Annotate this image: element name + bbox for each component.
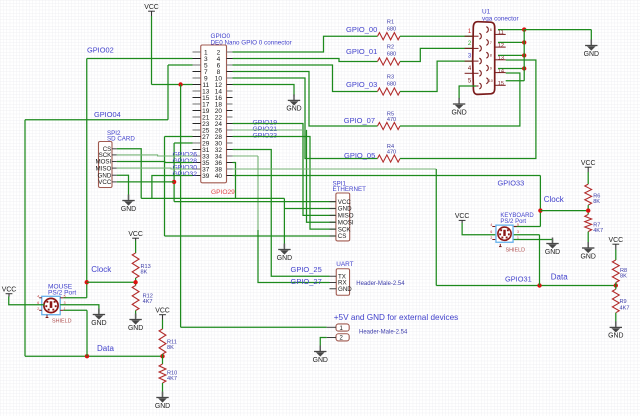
svg-text:ETHERNET: ETHERNET [333,186,367,193]
svg-text:GPIO04: GPIO04 [94,110,121,119]
svg-text:GND: GND [313,357,328,364]
svg-text:5: 5 [517,223,519,227]
svg-text:6: 6 [490,230,492,234]
svg-text:R1: R1 [387,19,394,25]
svg-text:VCC: VCC [455,213,470,220]
svg-text:GPIO_07: GPIO_07 [344,116,375,125]
svg-text:GND: GND [545,249,560,256]
svg-text:SHIELD: SHIELD [506,247,526,253]
svg-text:40: 40 [215,173,223,180]
svg-text:GND: GND [121,206,136,213]
svg-text:4: 4 [37,294,39,298]
svg-text:8K: 8K [141,270,148,276]
svg-text:680: 680 [387,52,396,58]
svg-text:GND: GND [286,106,301,113]
svg-text:UART: UART [336,261,353,268]
svg-text:SHIELD: SHIELD [52,318,72,324]
svg-text:GND: GND [91,320,106,327]
svg-text:9: 9 [490,66,492,70]
svg-text:4K7: 4K7 [593,228,603,234]
svg-text:GND: GND [338,286,352,293]
svg-text:VCC: VCC [609,237,624,244]
svg-text:DE0 Nano GPIO 0 connector: DE0 Nano GPIO 0 connector [211,39,292,46]
svg-text:4K7: 4K7 [167,376,177,382]
svg-text:MISO: MISO [95,165,111,172]
svg-text:GPIO33: GPIO33 [498,178,525,187]
svg-text:GND: GND [584,51,599,58]
svg-text:R3: R3 [387,75,394,81]
svg-text:GPIO29: GPIO29 [211,189,235,196]
svg-text:3: 3 [517,230,519,234]
svg-text:8K: 8K [167,345,174,351]
svg-text:Clock: Clock [91,265,112,274]
svg-text:GND: GND [155,403,170,410]
svg-text:VCC: VCC [98,179,112,186]
svg-text:8K: 8K [593,199,600,205]
svg-text:GPIO_25: GPIO_25 [291,265,322,274]
svg-text:VCC: VCC [2,287,17,294]
svg-text:12: 12 [498,43,504,49]
svg-text:GND: GND [277,255,292,262]
svg-text:2: 2 [37,307,39,311]
svg-text:VCC: VCC [155,308,170,315]
svg-text:PS/2 Port: PS/2 Port [48,290,76,297]
svg-text:Data: Data [97,344,114,353]
svg-text:1: 1 [64,307,66,311]
svg-text:GPIO02: GPIO02 [87,45,114,54]
svg-text:4K7: 4K7 [620,306,630,312]
svg-text:4: 4 [490,223,492,227]
svg-text:39: 39 [202,173,210,180]
svg-text:GND: GND [581,253,596,260]
svg-text:GPIO32: GPIO32 [173,171,198,178]
svg-text:680: 680 [387,26,396,32]
svg-text:GPIO_00: GPIO_00 [346,25,377,34]
svg-text:10: 10 [489,79,493,83]
svg-text:14: 14 [498,68,504,74]
svg-text:+5V and GND for external devic: +5V and GND for external devices [334,313,458,322]
svg-text:GPIO_03: GPIO_03 [346,80,377,89]
svg-text:VCC: VCC [144,4,159,11]
svg-text:R9: R9 [620,299,627,305]
svg-text:7: 7 [490,41,492,45]
svg-text:6: 6 [490,28,492,32]
svg-text:8: 8 [490,54,492,58]
svg-text:GPIO_27: GPIO_27 [291,277,322,286]
svg-text:2: 2 [490,236,492,240]
svg-text:5: 5 [64,294,66,298]
svg-text:GPIO_05: GPIO_05 [344,151,375,160]
svg-text:470: 470 [387,117,396,123]
svg-text:Header-Male-2.54: Header-Male-2.54 [356,281,405,287]
svg-text:680: 680 [387,82,396,88]
svg-text:VCC: VCC [128,231,143,238]
svg-text:GPIO_01: GPIO_01 [346,47,377,56]
svg-text:GPIO31: GPIO31 [505,274,532,283]
svg-text:SD CARD: SD CARD [107,136,135,143]
svg-text:Header-Male-2.54: Header-Male-2.54 [359,330,408,336]
svg-text:GND: GND [451,109,466,116]
svg-text:GND: GND [128,325,143,332]
svg-text:R2: R2 [387,45,394,51]
svg-text:8K: 8K [620,274,627,280]
svg-text:4K7: 4K7 [143,299,153,305]
svg-text:Clock: Clock [544,195,565,204]
svg-text:VCC: VCC [581,160,596,167]
svg-text:CS: CS [338,233,347,240]
svg-text:11: 11 [498,30,504,36]
svg-text:13: 13 [498,56,504,62]
svg-text:15: 15 [498,81,504,87]
svg-text:PS/2 Port: PS/2 Port [500,219,526,225]
svg-text:Data: Data [551,273,568,282]
svg-text:GND: GND [608,333,623,340]
svg-text:470: 470 [387,149,396,155]
